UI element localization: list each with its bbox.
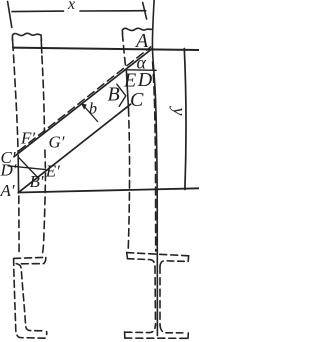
left chord left line (dashed): [14, 55, 19, 153]
I-beam bottom flange inner lines + fillets (dashed): [125, 325, 186, 333]
lacing bar upper edge: [14, 49, 152, 157]
left chord left edge solid stub: [12, 39, 15, 51]
right chord break (wavy top): [122, 28, 152, 33]
svg-text:C: C: [130, 89, 144, 111]
horizontal line above E D: [125, 69, 156, 72]
top gauge line through A: [13, 48, 199, 50]
svg-text:x: x: [67, 0, 75, 13]
line D'-E': [8, 166, 46, 170]
width pointer arrowhead: [81, 103, 87, 109]
I-beam bottom flange outer line (dashed): [125, 337, 188, 339]
mark C vertex lower arm: [119, 96, 126, 107]
svg-text:b: b: [89, 101, 97, 118]
perpendicular C' to B': [19, 158, 38, 178]
dimension x line left segment: [12, 10, 64, 13]
left chord left line lower part (dashed): [18, 196, 20, 253]
left chord right edge solid stub: [40, 40, 43, 54]
svg-text:D′: D′: [0, 161, 17, 180]
bottom gauge line through A': [18, 188, 199, 192]
left chord right line lower (dashed): [42, 173, 46, 256]
right chord left edge lower (dashed): [128, 109, 129, 253]
left chord right line (dashed): [42, 56, 45, 132]
lacing bar top end cut (solid vertical): [126, 70, 128, 109]
svg-text:F′: F′: [20, 128, 35, 147]
dimension x line right segment: [80, 10, 146, 12]
svg-text:A: A: [134, 30, 149, 52]
right chord web centre line lower (solid through section): [156, 255, 158, 336]
lacing bar bottom end cut (solid vertical): [17, 155, 19, 193]
svg-text:A′: A′: [0, 181, 15, 200]
svg-text:E: E: [123, 69, 136, 91]
svg-text:B′: B′: [30, 172, 44, 191]
right chord solid edge line (curved): [152, 1, 157, 256]
width pointer tail: [86, 108, 98, 122]
dimension x extension line right: [143, 3, 147, 20]
svg-text:G′: G′: [49, 133, 65, 152]
right chord left edge upper (dashed): [122, 34, 126, 70]
right chord inner dashed line: [153, 62, 156, 251]
I-beam bottom flange right tip: [187, 333, 189, 338]
svg-text:D: D: [137, 69, 153, 91]
mark B to C vertex: [117, 84, 126, 96]
dimension x extension line left: [8, 2, 12, 28]
dimension y line: [184, 49, 186, 190]
channel section inner contour (dashed): [16, 258, 46, 331]
I-beam top flange right tip: [187, 256, 189, 262]
I-beam top flange left tip: [126, 253, 129, 259]
lacing bar gauge line (dashed, parallel above upper edge): [19, 47, 151, 151]
I-beam bottom flange left tip: [124, 332, 126, 338]
I-beam web left line (dashed): [154, 266, 157, 325]
left chord break (wavy top): [12, 33, 41, 40]
I-beam section top flange underside + fillets (dashed): [128, 259, 187, 267]
lacing bar lower edge: [19, 104, 131, 192]
svg-text:y: y: [170, 106, 190, 116]
I-beam web right line (dashed): [159, 266, 161, 325]
channel section outer contour (dashed): [14, 257, 47, 338]
svg-text:E′: E′: [45, 162, 60, 181]
left chord right line mid (dashed): [44, 150, 47, 168]
I-beam section top flange top line (dashed): [127, 253, 189, 256]
svg-text:B: B: [108, 84, 120, 106]
